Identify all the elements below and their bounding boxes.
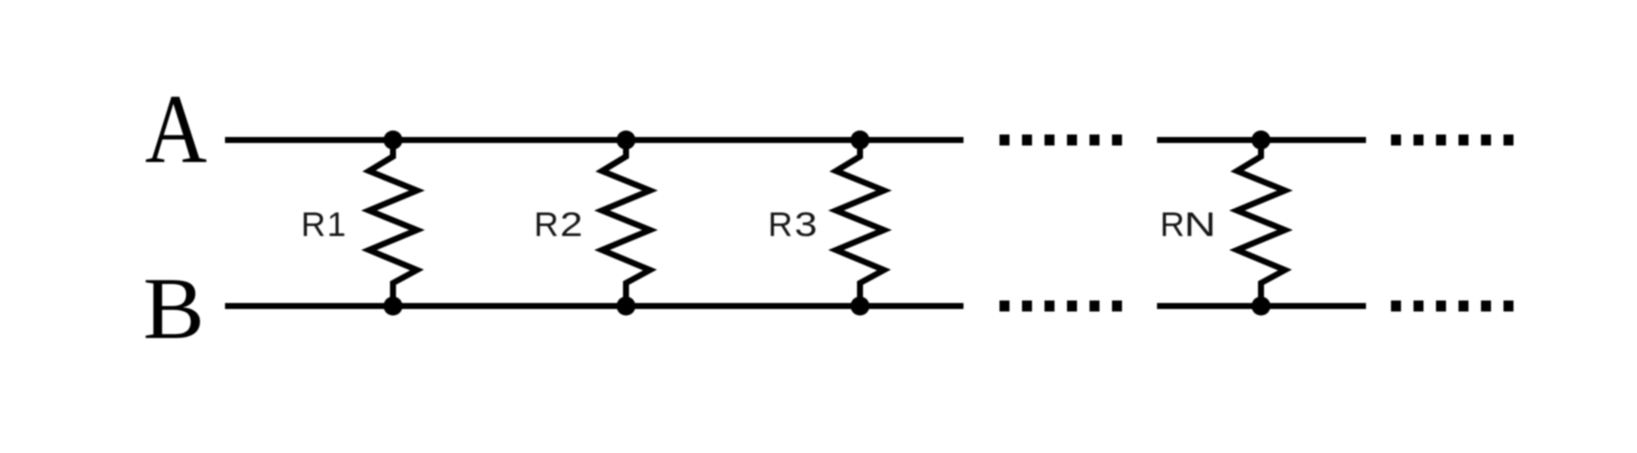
svg-text:A: A: [145, 75, 207, 184]
svg-text:R: R: [768, 206, 793, 244]
svg-text:B: B: [143, 261, 205, 358]
svg-text:R: R: [1160, 206, 1185, 244]
svg-text:R: R: [534, 206, 559, 244]
svg-text:1: 1: [327, 206, 346, 244]
svg-text:N: N: [1184, 206, 1216, 244]
svg-text:2: 2: [560, 206, 583, 244]
svg-text:3: 3: [795, 206, 818, 244]
svg-text:R: R: [301, 206, 326, 244]
